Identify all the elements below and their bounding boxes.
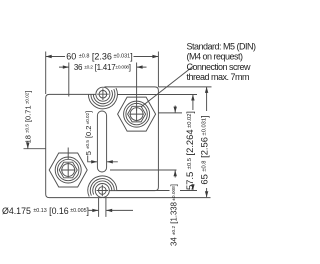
central slot <box>97 111 106 172</box>
dimension 60 extension lines <box>46 52 159 95</box>
dimension 18 arrow and extension <box>24 142 46 149</box>
dimension 5 slot width arrows <box>88 156 118 162</box>
bottom mounting hole boss circle <box>95 184 109 198</box>
terminal screw cross bottom-left <box>61 163 76 177</box>
dimension 65 line <box>206 87 208 197</box>
svg-text:Connection screw: Connection screw <box>187 62 252 72</box>
extension line hex bottom-left center <box>110 169 177 171</box>
centerline bottom-left hex <box>67 148 69 160</box>
dimension 57.5 line <box>192 95 194 191</box>
breaker body outline <box>46 94 103 197</box>
hole diameter arrows <box>89 209 134 211</box>
hole diameter extension lines <box>99 198 106 217</box>
extension line hex top-right center <box>158 112 182 114</box>
extension line top hole center right <box>118 94 198 96</box>
svg-text:Standard: M5 (DIN): Standard: M5 (DIN) <box>187 42 257 52</box>
extension line top edge right to 65 dim <box>158 86 211 88</box>
terminal screw cross top-right <box>129 107 144 121</box>
dimension 34 arrows <box>174 106 176 178</box>
top mounting hole cross circle <box>99 90 107 98</box>
leader line to connection screw <box>141 66 194 107</box>
dimension 36 arrows <box>59 66 147 68</box>
dimension 60 line <box>46 56 159 58</box>
terminal hex bottom-left <box>49 153 87 187</box>
top mounting hole arcs <box>93 90 112 104</box>
svg-text:thread max. 7mm: thread max. 7mm <box>187 72 250 82</box>
extension line bottom hole center right <box>117 190 197 192</box>
terminal hex top-right <box>118 97 156 131</box>
svg-text:(M4 on request): (M4 on request) <box>187 52 244 62</box>
bottom mounting hole cross circle <box>99 187 107 195</box>
extension line bottom edge right to 65 dim <box>103 197 211 199</box>
dimension 36 extension lines <box>69 63 137 112</box>
bottom mounting hole arcs <box>93 181 112 195</box>
top mounting hole boss circle <box>96 87 110 101</box>
